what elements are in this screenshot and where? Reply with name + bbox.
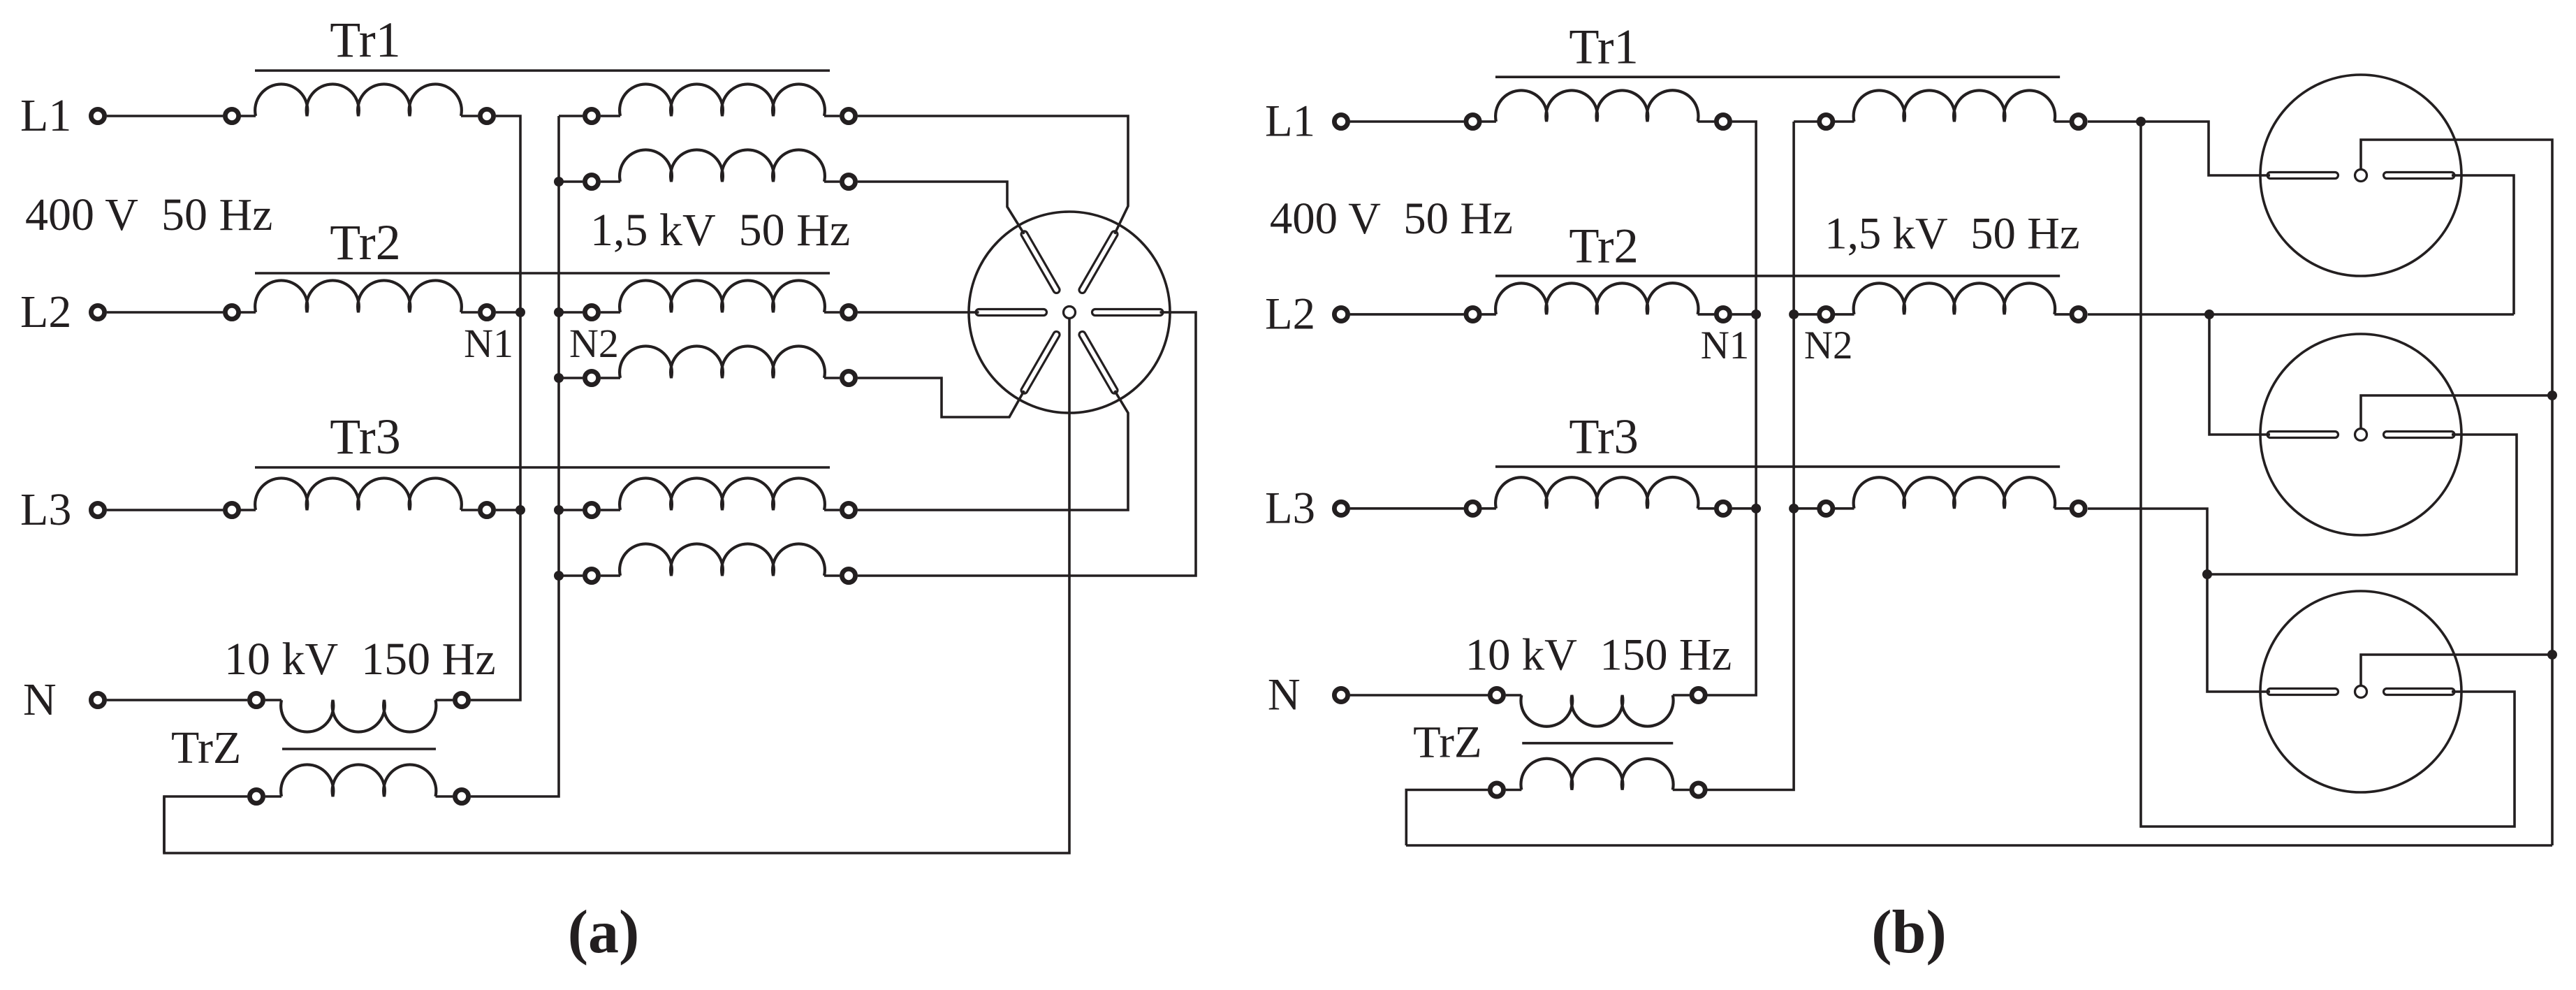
svg-text:Tr1: Tr1 — [1569, 20, 1639, 75]
diagram-a wire Tr1 primary end stub — [461, 115, 478, 117]
diagram-b inductor Tr2 secondary winding — [1854, 283, 2056, 314]
diagram-b wire L2 input lead — [1350, 313, 1464, 316]
diagram-b inductor TrZ secondary winding — [1521, 759, 1673, 790]
diagram-b terminal Tr3 secondary end — [2072, 502, 2085, 515]
diagram-a wire L1 input lead — [107, 115, 223, 117]
svg-text:N2: N2 — [1804, 323, 1853, 367]
diagram-a terminal TrZ primary end — [455, 693, 468, 706]
svg-text:(a): (a) — [568, 898, 640, 966]
wire Tr2 secondary-2 to La1 lower-left electrode — [858, 378, 1024, 417]
svg-text:Tr2: Tr2 — [1569, 219, 1639, 273]
diagram-a terminal Tr2 primary end — [480, 305, 493, 319]
diagram-a wire Tr3 second secondary to N2 bus — [559, 574, 583, 577]
wire Tr1 secondary to Lb1 left electrode — [2088, 122, 2270, 175]
lamp La1 right electrode — [1092, 310, 1164, 316]
diagram-b wire N1 bus — [1707, 122, 1756, 695]
svg-text:L1: L1 — [1265, 96, 1315, 147]
junction node B / Lb2 left feed — [2204, 310, 2214, 319]
diagram-a terminal Tr1 secondary end — [842, 109, 855, 122]
diagram-a junction N2 bus / Tr3 secondary — [554, 505, 564, 515]
diagram-b terminal Tr3 primary start — [1466, 502, 1479, 515]
diagram-a wire L2 input lead — [107, 311, 223, 314]
lamp Lb3 envelope (two-electrode lamp, diagram b) — [2260, 591, 2461, 792]
junction node A (Tr1 secondary output) — [2136, 117, 2146, 126]
lamp Lb1 right electrode — [2384, 173, 2455, 179]
wire node A to Lb3 right electrode — [2141, 122, 2515, 827]
diagram-a wire TrZ secondary end stub — [436, 795, 453, 798]
diagram-a wire N2 bus — [471, 116, 559, 796]
diagram-a terminal N input — [91, 693, 104, 706]
diagram-b transformer Tr1 core — [1495, 75, 2060, 78]
wire Tr1 secondary-2 to La1 upper-left electrode — [858, 182, 1024, 234]
lamp La1 envelope (six-electrode lamp, diagram a) — [969, 212, 1170, 413]
diagram-a inductor Tr3 primary winding — [255, 478, 462, 510]
lamp La1 lower-left electrode — [1021, 332, 1060, 394]
diagram-b terminal Tr1 secondary start — [1820, 115, 1833, 128]
diagram-b terminal N input — [1334, 688, 1347, 701]
diagram-b wire Tr2 primary start stub — [1479, 313, 1496, 316]
diagram-a terminal Tr2 second secondary end — [842, 371, 855, 384]
diagram-b wire TrZ secondary start stub — [1506, 789, 1522, 792]
lamp Lb2 center electrode — [2355, 429, 2367, 441]
junction auxiliary bus / Lb2 center — [2547, 391, 2557, 400]
diagram-b wire TrZ primary end stub — [1673, 694, 1690, 697]
svg-text:L1: L1 — [20, 90, 71, 141]
svg-text:N: N — [1268, 670, 1301, 720]
diagram-b terminal Tr1 secondary end — [2072, 115, 2085, 128]
diagram-b terminal Tr1 primary end — [1716, 115, 1729, 128]
diagram-a inductor TrZ primary winding (10 kV 150 Hz) — [281, 700, 436, 732]
diagram-a wire N1 bus — [471, 116, 520, 700]
svg-text:400 V 50 Hz: 400 V 50 Hz — [1270, 194, 1513, 244]
diagram-a wire Tr1 secondary end stub — [824, 115, 840, 117]
diagram-b terminal L1 input — [1334, 115, 1347, 128]
diagram-b inductor Tr2 primary winding — [1495, 283, 1698, 314]
diagram-b wire TrZ primary start stub — [1506, 694, 1522, 697]
wire Lb1 center electrode to auxiliary bus — [2361, 140, 2552, 845]
junction auxiliary bus / Lb3 center — [2547, 650, 2557, 660]
diagram-a transformer Tr3 core — [255, 466, 830, 469]
diagram-b terminal TrZ primary start — [1490, 688, 1503, 701]
diagram-b junction N2 bus / Tr3 secondary — [1789, 504, 1799, 514]
diagram-a wire Tr3 secondary end stub — [824, 509, 840, 511]
svg-text:TrZ: TrZ — [1413, 717, 1481, 767]
diagram-a transformer TrZ core — [282, 748, 436, 750]
diagram-a wire Tr2 secondary start to N2 bus — [559, 311, 583, 314]
diagram-b inductor Tr1 secondary winding — [1854, 90, 2056, 122]
diagram-a terminal TrZ secondary end — [455, 789, 468, 803]
diagram-a wire TrZ primary end stub — [436, 699, 453, 701]
diagram-a junction N1 bus / Tr3 primary — [515, 505, 525, 515]
lamp Lb1 envelope (two-electrode lamp, diagram b) — [2260, 75, 2461, 276]
diagram-a junction N1 bus / Tr2 primary — [515, 307, 525, 317]
diagram-b terminal Tr3 secondary start — [1820, 502, 1833, 515]
diagram-a wire Tr3 primary end stub — [461, 509, 478, 511]
diagram-a wire TrZ primary start stub — [265, 699, 281, 701]
diagram-a wire Tr2 second secondary to N2 bus — [559, 377, 583, 379]
diagram-a wire Tr3 second secondary start stub — [601, 574, 620, 577]
svg-text:N2: N2 — [569, 321, 619, 366]
diagram-a inductor Tr2 second secondary winding — [620, 346, 825, 378]
diagram-a inductor Tr1 secondary winding — [620, 84, 825, 116]
diagram-b wire Tr3 secondary start stub — [1835, 507, 1854, 510]
diagram-a wire Tr3 primary end to N1 bus — [496, 509, 520, 511]
svg-text:N1: N1 — [464, 321, 513, 366]
wire Lb1 right electrode down to node B — [2452, 175, 2514, 314]
lamp Lb3 center electrode — [2355, 686, 2367, 698]
lamp La1 upper-left electrode — [1021, 231, 1060, 293]
diagram-a wire Tr2 second secondary end stub — [824, 377, 840, 379]
diagram-a terminal Tr3 secondary start — [585, 503, 598, 516]
diagram-a wire Tr1 second secondary start stub — [601, 180, 620, 183]
diagram-b wire Tr3 secondary end stub — [2054, 507, 2070, 510]
wire Tr2 secondary output (node B) — [2088, 313, 2514, 316]
diagram-a terminal Tr3 second secondary end — [842, 569, 855, 582]
diagram-a inductor Tr3 second secondary winding — [620, 544, 825, 576]
diagram-a wire Tr3 secondary start to N2 bus — [559, 509, 583, 511]
svg-text:10 kV 150 Hz: 10 kV 150 Hz — [1465, 630, 1732, 680]
diagram-a wire Tr2 primary start stub — [239, 311, 256, 314]
diagram-a wire Tr1 secondary start to N2 bus — [559, 115, 583, 117]
diagram-a terminal Tr1 secondary start — [585, 109, 598, 122]
svg-text:Tr2: Tr2 — [330, 214, 400, 270]
diagram-a wire Tr2 secondary end stub — [824, 311, 840, 314]
diagram-a terminal TrZ secondary start — [249, 789, 263, 803]
diagram-b wire Tr1 secondary start to N2 bus — [1794, 120, 1817, 123]
svg-text:L2: L2 — [20, 286, 71, 337]
wire Tr3 secondary-1 to La1 lower-right electrode — [858, 391, 1128, 510]
diagram-a wire Tr2 second secondary start stub — [601, 377, 620, 379]
diagram-b terminal Tr3 primary end — [1716, 502, 1729, 515]
diagram-b wire Tr3 secondary start to N2 bus — [1794, 507, 1817, 510]
lamp La1 lower-right electrode — [1079, 332, 1118, 394]
svg-text:N1: N1 — [1701, 323, 1750, 367]
diagram-a wire L3 input lead — [107, 509, 223, 511]
diagram-a terminal Tr3 primary start — [225, 503, 238, 516]
lamp Lb1 center electrode — [2355, 170, 2367, 182]
junction node C / Lb2 right return — [2202, 569, 2212, 579]
diagram-b wire Tr1 secondary end stub — [2054, 120, 2070, 123]
diagram-b junction N1 bus / Tr2 primary — [1751, 310, 1761, 319]
diagram-a wire TrZ secondary start stub — [265, 795, 281, 798]
diagram-b wire Tr3 primary end stub — [1698, 507, 1715, 510]
svg-text:1,5 kV 50 Hz: 1,5 kV 50 Hz — [590, 205, 850, 256]
diagram-b terminal Tr2 primary end — [1716, 307, 1729, 321]
diagram-a terminal Tr2 secondary start — [585, 305, 598, 319]
diagram-b wire N input lead — [1350, 694, 1488, 697]
wire Tr1 secondary-1 to La1 upper-right electrode — [858, 116, 1128, 234]
diagram-a terminal Tr2 secondary end — [842, 305, 855, 319]
diagram-b transformer Tr2 core — [1495, 275, 2060, 277]
svg-text:TrZ: TrZ — [171, 722, 241, 773]
diagram-a inductor Tr2 primary winding — [255, 280, 462, 312]
diagram-a inductor TrZ secondary winding — [281, 764, 436, 796]
diagram-b terminal Tr2 secondary end — [2072, 307, 2085, 321]
diagram-b wire TrZ secondary end stub — [1673, 789, 1690, 792]
diagram-b inductor Tr3 primary winding — [1495, 477, 1698, 509]
diagram-a terminal L2 input — [91, 305, 104, 319]
diagram-a terminal TrZ primary start — [249, 693, 263, 706]
diagram-b inductor Tr1 primary winding — [1495, 90, 1698, 122]
wire TrZ secondary return bottom run (diagram b) — [1406, 844, 2552, 847]
wire Tr3 secondary-2 to La1 right electrode — [858, 312, 1196, 576]
diagram-b terminal Tr2 secondary start — [1820, 307, 1833, 321]
diagram-a terminal Tr3 second secondary start — [585, 569, 598, 582]
svg-text:1,5 kV 50 Hz: 1,5 kV 50 Hz — [1824, 209, 2079, 259]
diagram-a wire N input lead — [107, 699, 247, 701]
diagram-a terminal L1 input — [91, 109, 104, 122]
diagram-b terminal TrZ secondary end — [1692, 783, 1705, 796]
svg-text:L3: L3 — [1265, 483, 1315, 533]
svg-text:10 kV 150 Hz: 10 kV 150 Hz — [224, 634, 496, 685]
diagram-a wire Tr1 primary start stub — [239, 115, 256, 117]
diagram-b wire L1 input lead — [1350, 120, 1464, 123]
diagram-a terminal L3 input — [91, 503, 104, 516]
diagram-a wire Tr1 second secondary end stub — [824, 180, 840, 183]
diagram-a wire Tr3 primary start stub — [239, 509, 256, 511]
diagram-a wire Tr3 secondary start stub — [601, 509, 620, 511]
wire La1 center electrode to TrZ secondary return — [164, 319, 1069, 854]
diagram-b junction N2 bus / Tr2 secondary — [1789, 310, 1799, 319]
diagram-b wire Tr2 primary end to N1 bus — [1732, 313, 1756, 316]
diagram-a inductor Tr1 second secondary winding — [620, 150, 825, 182]
diagram-b wire Tr1 secondary start stub — [1835, 120, 1854, 123]
lamp Lb2 left electrode — [2267, 432, 2339, 438]
diagram-a terminal Tr1 primary end — [480, 109, 493, 122]
lamp La1 upper-right electrode — [1079, 231, 1118, 293]
diagram-b wire N2 bus — [1707, 122, 1794, 790]
diagram-b wire Tr3 primary start stub — [1479, 507, 1496, 510]
lamp Lb3 left electrode — [2267, 689, 2339, 695]
wire Tr3 secondary to Lb3 left electrode — [2088, 509, 2270, 692]
diagram-a wire Tr1 second secondary to N2 bus — [559, 180, 583, 183]
diagram-b terminal Tr2 primary start — [1466, 307, 1479, 321]
diagram-a terminal Tr1 second secondary end — [842, 175, 855, 188]
diagram-a terminal Tr3 primary end — [480, 503, 493, 516]
diagram-a wire Tr2 primary end stub — [461, 311, 478, 314]
svg-text:(b): (b) — [1871, 898, 1947, 966]
wire Tr2 secondary-1 to La1 left electrode — [858, 311, 979, 314]
diagram-b wire Tr2 secondary end stub — [2054, 313, 2070, 316]
diagram-a wire Tr2 primary end to N1 bus — [496, 311, 520, 314]
diagram-a junction N2 bus / Tr1 second secondary — [554, 177, 564, 187]
lamp Lb2 envelope (two-electrode lamp, diagram b) — [2260, 334, 2461, 535]
diagram-a wire Tr3 second secondary end stub — [824, 574, 840, 577]
diagram-a transformer Tr1 core — [255, 69, 830, 72]
diagram-a wire Tr1 secondary start stub — [601, 115, 620, 117]
diagram-a terminal Tr2 second secondary start — [585, 371, 598, 384]
lamp La1 center electrode — [1064, 307, 1076, 319]
wire Lb3 center electrode to auxiliary bus — [2361, 655, 2552, 685]
diagram-b junction N1 bus / Tr3 primary — [1751, 504, 1761, 514]
diagram-b wire Tr2 secondary start to N2 bus — [1794, 313, 1817, 316]
diagram-a terminal Tr3 secondary end — [842, 503, 855, 516]
diagram-b wire Tr2 primary end stub — [1698, 313, 1715, 316]
diagram-b terminal L3 input — [1334, 502, 1347, 515]
diagram-a terminal Tr1 second secondary start — [585, 175, 598, 188]
diagram-b wire L3 input lead — [1350, 507, 1464, 510]
diagram-a inductor Tr1 primary winding — [255, 84, 462, 116]
diagram-b terminal TrZ primary end — [1692, 688, 1705, 701]
wire node B to Lb2 left electrode — [2209, 314, 2270, 435]
wire node C to Lb2 right electrode — [2207, 435, 2517, 574]
diagram-b terminal L2 input — [1334, 307, 1347, 321]
svg-text:L3: L3 — [20, 484, 71, 535]
diagram-a junction N2 bus / Tr2 secondary — [554, 307, 564, 317]
diagram-a transformer Tr2 core — [255, 272, 830, 275]
diagram-b inductor TrZ primary winding (10 kV 150 Hz) — [1521, 695, 1673, 727]
lamp La1 left electrode — [976, 310, 1047, 316]
lamp Lb2 right electrode — [2384, 432, 2455, 438]
diagram-b terminal Tr1 primary start — [1466, 115, 1479, 128]
wire Lb2 center electrode to auxiliary bus — [2361, 395, 2552, 428]
diagram-b transformer TrZ core — [1522, 742, 1673, 745]
diagram-b wire Tr3 primary end to N1 bus — [1732, 507, 1756, 510]
diagram-a wire Tr2 secondary start stub — [601, 311, 620, 314]
svg-text:Tr3: Tr3 — [330, 409, 400, 465]
svg-text:400 V 50 Hz: 400 V 50 Hz — [25, 189, 272, 240]
diagram-b wire Tr1 primary end stub — [1698, 120, 1715, 123]
diagram-b wire Tr2 secondary start stub — [1835, 313, 1854, 316]
svg-text:Tr1: Tr1 — [330, 12, 400, 68]
diagram-b terminal TrZ secondary start — [1490, 783, 1503, 796]
diagram-a inductor Tr3 secondary winding — [620, 478, 825, 510]
diagram-a inductor Tr2 secondary winding — [620, 280, 825, 312]
lamp Lb1 left electrode — [2267, 173, 2339, 179]
svg-text:L2: L2 — [1265, 289, 1315, 340]
svg-text:Tr3: Tr3 — [1569, 409, 1639, 464]
diagram-b wire Tr1 primary start stub — [1479, 120, 1496, 123]
diagram-a terminal Tr1 primary start — [225, 109, 238, 122]
diagram-a junction N2 bus / Tr2 second secondary — [554, 373, 564, 383]
lamp Lb3 right electrode — [2384, 689, 2455, 695]
diagram-b transformer Tr3 core — [1495, 465, 2060, 468]
diagram-b inductor Tr3 secondary winding — [1854, 477, 2056, 509]
diagram-a junction N2 bus / Tr3 second secondary — [554, 571, 564, 581]
diagram-b wire TrZ secondary return (left drop) — [1406, 790, 1488, 846]
diagram-a terminal Tr2 primary start — [225, 305, 238, 319]
svg-text:N: N — [23, 674, 57, 725]
diagram-a wire TrZ secondary return (left drop) — [164, 796, 247, 853]
